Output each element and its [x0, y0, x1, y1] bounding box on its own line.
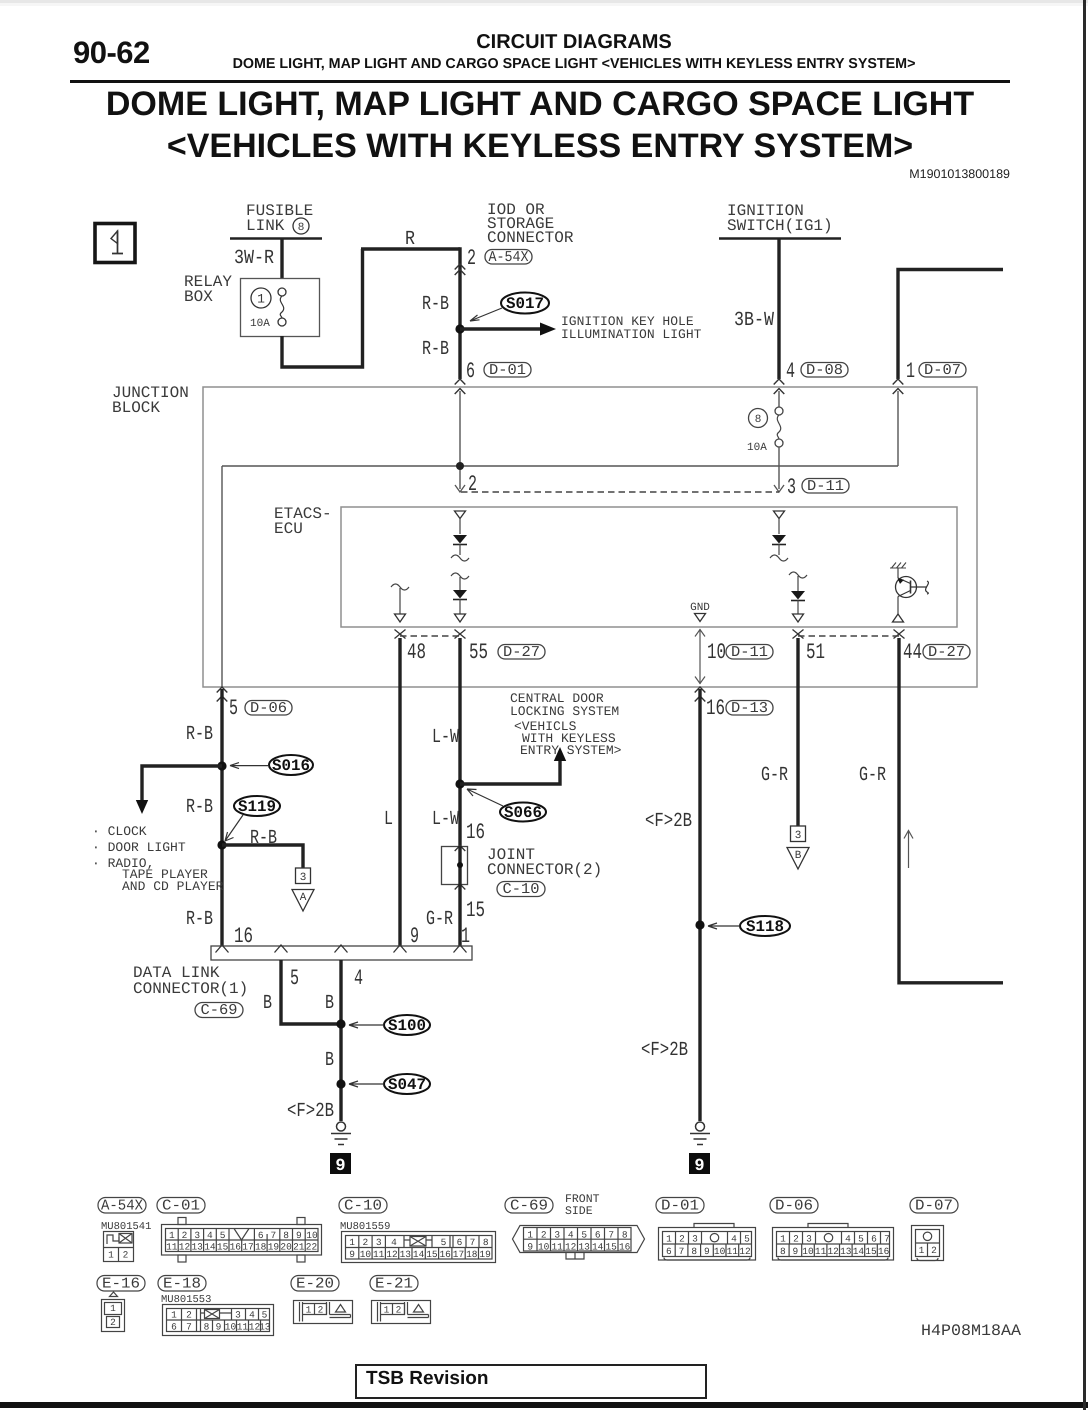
arrowhead pin 3 — [774, 485, 784, 492]
svg-text:SWITCH(IG1): SWITCH(IG1) — [727, 217, 833, 235]
svg-text:2: 2 — [182, 1230, 188, 1241]
arrowhead pin 2 — [455, 485, 465, 492]
svg-text:C-10: C-10 — [344, 1198, 382, 1215]
pin 55 output triangle — [455, 614, 466, 622]
wire branch to clock etc — [142, 764, 222, 801]
header rule — [70, 80, 1010, 83]
wire relay box to IOD riser — [280, 249, 460, 369]
svg-text:8: 8 — [298, 222, 305, 234]
svg-text:10A: 10A — [250, 318, 270, 330]
diode D2 — [453, 590, 467, 600]
svg-text:9: 9 — [349, 1249, 355, 1260]
wire — [459, 519, 461, 535]
svg-text:2: 2 — [931, 1245, 937, 1256]
connector C-69 tag — [195, 1002, 243, 1019]
circled 8 — [749, 409, 768, 428]
ignition key hole label — [561, 314, 702, 342]
svg-text:2: 2 — [318, 1305, 324, 1316]
svg-text:S119: S119 — [238, 798, 276, 816]
svg-text:R-B: R-B — [186, 723, 213, 746]
connector D-06 tag — [245, 700, 292, 717]
svg-text:1: 1 — [780, 1234, 786, 1245]
doc code — [909, 167, 1010, 181]
svg-text:D-11: D-11 — [731, 644, 768, 661]
fuse in relay box — [278, 288, 286, 326]
svg-text:LOCKING SYSTEM: LOCKING SYSTEM — [510, 704, 619, 719]
connector C-10 tag — [339, 1198, 387, 1215]
svg-text:B: B — [325, 992, 334, 1015]
data link connector box — [211, 945, 472, 960]
svg-text:D-27: D-27 — [928, 644, 965, 661]
connector E-20 tag — [291, 1276, 339, 1293]
svg-text:1: 1 — [666, 1234, 672, 1245]
svg-text:8: 8 — [204, 1322, 210, 1333]
svg-text:10A: 10A — [747, 442, 767, 454]
header center title — [476, 31, 672, 54]
connector D-11 tag — [726, 644, 773, 661]
svg-text:L: L — [384, 808, 393, 831]
svg-text:12: 12 — [179, 1242, 191, 1253]
node S100 — [336, 1019, 345, 1028]
relay box label — [184, 273, 232, 306]
svg-text:4: 4 — [568, 1230, 574, 1241]
svg-text:14: 14 — [592, 1242, 604, 1253]
svg-text:5: 5 — [229, 696, 238, 721]
svg-text:9: 9 — [335, 1157, 345, 1176]
svg-text:6: 6 — [466, 359, 475, 384]
svg-text:3: 3 — [787, 475, 796, 500]
wire pin4 down — [339, 960, 342, 1121]
svg-text:5: 5 — [581, 1230, 587, 1241]
wire ignition switch down — [777, 239, 780, 379]
right page edge — [1083, 0, 1086, 1410]
svg-text:10: 10 — [306, 1230, 318, 1241]
svg-text:13: 13 — [840, 1246, 852, 1257]
svg-text:17: 17 — [242, 1242, 253, 1253]
connector table — [97, 1193, 958, 1336]
svg-text:E-18: E-18 — [163, 1276, 201, 1293]
svg-text:D-13: D-13 — [731, 700, 768, 717]
svg-text:S100: S100 — [388, 1017, 426, 1035]
ignition switch label — [719, 202, 841, 239]
wire R-B main left — [220, 689, 223, 946]
pin 48 break squiggle — [391, 584, 409, 590]
svg-text:LINK: LINK — [246, 217, 285, 235]
svg-text:R-B: R-B — [186, 796, 213, 819]
svg-text:L-W: L-W — [432, 808, 459, 831]
svg-text:15: 15 — [865, 1246, 877, 1257]
svg-text:44: 44 — [903, 640, 922, 665]
svg-text:6: 6 — [258, 1230, 264, 1241]
svg-text:5: 5 — [290, 966, 299, 991]
wire — [459, 577, 461, 590]
svg-text:19: 19 — [479, 1249, 491, 1260]
wire D-01 inside block — [459, 391, 461, 489]
svg-text:3: 3 — [376, 1237, 382, 1248]
svg-text:1: 1 — [257, 292, 265, 307]
svg-text:3: 3 — [300, 872, 307, 884]
node S118 — [695, 920, 704, 929]
pin 48 output triangle — [395, 614, 406, 622]
svg-text:8: 8 — [780, 1246, 786, 1257]
svg-text:2: 2 — [793, 1234, 799, 1245]
svg-text:16: 16 — [230, 1242, 242, 1253]
connector D-06 tag — [770, 1198, 818, 1215]
svg-text:D-06: D-06 — [775, 1198, 813, 1215]
svg-text:2: 2 — [679, 1234, 685, 1245]
svg-text:1: 1 — [906, 359, 915, 384]
svg-text:16: 16 — [878, 1246, 890, 1257]
diode D1 — [453, 535, 467, 545]
svg-text:<F>2B: <F>2B — [645, 810, 692, 833]
svg-text:10: 10 — [707, 640, 726, 665]
connector A-54X drawing — [104, 1232, 134, 1262]
wire GND pin to block edge — [695, 629, 705, 684]
svg-text:1: 1 — [110, 1303, 116, 1314]
svg-text:A-54X: A-54X — [101, 1198, 143, 1215]
wire bus left leg — [221, 466, 223, 687]
connector C-69 tag — [505, 1198, 553, 1215]
connector D-27 tag right — [923, 644, 970, 661]
wire 44 down and right — [897, 638, 1003, 983]
svg-text:9: 9 — [216, 1322, 222, 1333]
svg-text:11: 11 — [815, 1246, 827, 1257]
svg-text:D-07: D-07 — [915, 1198, 953, 1215]
svg-text:D-27: D-27 — [503, 644, 540, 661]
connector A-54X tag — [98, 1198, 146, 1215]
svg-text:C-69: C-69 — [510, 1198, 548, 1215]
svg-text:6: 6 — [457, 1237, 463, 1248]
svg-text:10: 10 — [714, 1246, 726, 1257]
svg-text:5: 5 — [441, 1237, 447, 1248]
svg-text:A: A — [300, 892, 307, 904]
bottom bar — [0, 1402, 1088, 1408]
wire fuse to D-11 — [778, 447, 780, 489]
svg-text:16: 16 — [439, 1249, 451, 1260]
svg-text:14: 14 — [413, 1249, 425, 1260]
ETACS-ECU box — [341, 507, 957, 627]
svg-text:5: 5 — [220, 1230, 226, 1241]
svg-text:15: 15 — [426, 1249, 438, 1260]
svg-text:14: 14 — [853, 1246, 865, 1257]
svg-text:C-69: C-69 — [201, 1002, 238, 1019]
wire D-13 down — [698, 689, 701, 1121]
connector D-07 tag — [910, 1198, 958, 1215]
svg-text:3: 3 — [194, 1230, 200, 1241]
svg-text:1: 1 — [349, 1237, 355, 1248]
ground ref 9 right — [689, 1153, 710, 1176]
main title line 1 — [106, 85, 974, 124]
svg-text:10: 10 — [225, 1322, 237, 1333]
svg-text:· DOOR LIGHT: · DOOR LIGHT — [92, 840, 186, 855]
pin crossing X 44 — [894, 630, 905, 639]
svg-text:ECU: ECU — [274, 520, 303, 538]
svg-text:· CLOCK: · CLOCK — [92, 824, 147, 839]
wire D-07 feed — [896, 268, 1003, 379]
chevrons D-06 exit — [217, 687, 228, 702]
svg-text:SIDE: SIDE — [565, 1205, 593, 1218]
dashed connector line D-11 — [461, 491, 779, 493]
connector C-10 drawing — [342, 1232, 496, 1263]
wire IG inside block — [778, 391, 780, 407]
svg-text:9: 9 — [410, 924, 419, 949]
transistor Q1 — [890, 563, 928, 615]
pin 2 input triangle — [455, 511, 466, 519]
svg-text:4: 4 — [731, 1234, 737, 1245]
option triangle A — [292, 890, 314, 912]
connector E-21 tag — [370, 1276, 418, 1293]
svg-text:GND: GND — [690, 602, 710, 614]
wire IOD riser down — [458, 247, 461, 379]
svg-text:1: 1 — [527, 1230, 533, 1241]
wire — [778, 519, 780, 535]
top scan band — [0, 0, 1088, 3]
svg-text:S047: S047 — [388, 1076, 426, 1094]
svg-text:51: 51 — [806, 640, 825, 665]
svg-text:1: 1 — [384, 1305, 390, 1316]
relay box — [241, 279, 320, 337]
joint connector C-10 — [442, 846, 468, 890]
connector D-11 tag — [802, 478, 849, 495]
wire 51 down — [796, 638, 799, 826]
wire pin5 to S100 — [279, 960, 341, 1024]
svg-text:R-B: R-B — [422, 338, 449, 361]
joint connector label — [487, 846, 602, 879]
pin crossing X 55 — [455, 630, 466, 639]
svg-text:ENTRY SYSTEM>: ENTRY SYSTEM> — [520, 743, 622, 758]
connector E-20 drawing — [294, 1301, 353, 1324]
svg-text:11: 11 — [551, 1242, 563, 1253]
splice S119 — [225, 796, 280, 841]
svg-text:48: 48 — [407, 640, 426, 665]
option box 3 — [296, 868, 311, 884]
svg-text:16: 16 — [706, 696, 725, 721]
svg-text:16: 16 — [619, 1242, 631, 1253]
fusible link label — [230, 202, 322, 239]
page number — [73, 35, 150, 71]
connector C-10 tag — [497, 881, 545, 898]
svg-text:12: 12 — [739, 1246, 751, 1257]
ground left — [331, 1122, 351, 1145]
svg-text:C-01: C-01 — [162, 1198, 200, 1215]
svg-text:5: 5 — [262, 1310, 268, 1321]
svg-text:<F>2B: <F>2B — [287, 1100, 334, 1123]
connector C-69 drawing — [513, 1226, 645, 1260]
svg-text:3B-W: 3B-W — [734, 309, 774, 332]
front side label — [565, 1193, 600, 1218]
svg-text:4: 4 — [391, 1237, 397, 1248]
svg-text:S066: S066 — [504, 804, 542, 822]
svg-text:S118: S118 — [746, 918, 784, 936]
diode D3 — [772, 535, 786, 545]
splice S118 — [708, 916, 790, 936]
svg-text:E-21: E-21 — [375, 1276, 413, 1293]
break squiggle — [451, 573, 469, 579]
svg-text:CONNECTOR: CONNECTOR — [487, 229, 574, 247]
splice S066 — [467, 789, 546, 822]
svg-text:7: 7 — [186, 1322, 192, 1333]
svg-text:7: 7 — [470, 1237, 476, 1248]
svg-text:B: B — [263, 992, 272, 1015]
svg-text:R-B: R-B — [186, 908, 213, 931]
svg-text:AND CD PLAYER: AND CD PLAYER — [122, 879, 224, 894]
connector D-01 drawing — [659, 1224, 756, 1261]
svg-text:12: 12 — [386, 1249, 398, 1260]
svg-text:H4P08M18AA: H4P08M18AA — [921, 1322, 1021, 1340]
svg-text:22: 22 — [306, 1242, 318, 1253]
svg-text:3: 3 — [806, 1234, 812, 1245]
svg-text:2: 2 — [186, 1310, 192, 1321]
svg-text:3: 3 — [795, 830, 802, 842]
svg-text:2: 2 — [123, 1250, 129, 1261]
svg-text:9: 9 — [704, 1246, 710, 1257]
svg-text:8: 8 — [283, 1230, 289, 1241]
svg-text:12: 12 — [565, 1242, 577, 1253]
central door locking label — [510, 691, 622, 758]
connector E-18 tag — [158, 1276, 206, 1293]
break squiggle — [451, 555, 469, 561]
svg-text:E-20: E-20 — [296, 1276, 334, 1293]
svg-text:14: 14 — [204, 1242, 216, 1253]
svg-text:ILLUMINATION LIGHT: ILLUMINATION LIGHT — [561, 327, 702, 342]
connector D-27 tag — [498, 644, 545, 661]
svg-text:L-W: L-W — [432, 726, 459, 749]
svg-text:E-16: E-16 — [102, 1276, 140, 1293]
svg-text:G-R: G-R — [761, 764, 788, 787]
svg-text:9: 9 — [694, 1157, 704, 1176]
svg-text:11: 11 — [373, 1249, 385, 1260]
svg-text:6: 6 — [171, 1322, 177, 1333]
pin 3 input triangle — [774, 511, 785, 519]
svg-text:D-08: D-08 — [806, 362, 843, 379]
svg-text:S017: S017 — [506, 295, 544, 313]
load list — [92, 824, 224, 894]
pin 44 output triangle up — [893, 614, 904, 622]
svg-text:CONNECTOR(1): CONNECTOR(1) — [133, 980, 248, 998]
diode D4 — [791, 591, 805, 601]
ground ref 9 left — [330, 1153, 351, 1176]
svg-text:1: 1 — [919, 1245, 925, 1256]
wire — [459, 599, 461, 614]
svg-text:7: 7 — [608, 1230, 614, 1241]
svg-text:16: 16 — [466, 820, 485, 845]
connector D-06 drawing — [773, 1224, 894, 1261]
svg-text:12: 12 — [827, 1246, 839, 1257]
svg-text:20: 20 — [280, 1242, 292, 1253]
svg-text:15: 15 — [217, 1242, 229, 1253]
svg-text:18: 18 — [466, 1249, 478, 1260]
pin 51 output triangle — [793, 614, 804, 622]
TSB revision box — [355, 1364, 707, 1399]
splice S100 — [349, 1015, 430, 1035]
connector D-07 drawing — [912, 1226, 944, 1261]
wire — [459, 544, 461, 555]
svg-text:13: 13 — [191, 1242, 203, 1253]
connector E-21 drawing — [372, 1301, 431, 1324]
svg-text:4: 4 — [845, 1234, 851, 1245]
connector D-08 tag — [801, 362, 848, 379]
svg-text:16: 16 — [234, 924, 253, 949]
svg-text:10: 10 — [360, 1249, 372, 1260]
svg-text:4: 4 — [249, 1310, 255, 1321]
svg-text:9: 9 — [793, 1246, 799, 1257]
node bus/D-01 — [456, 462, 464, 470]
svg-text:G-R: G-R — [859, 764, 886, 787]
svg-text:C-10: C-10 — [503, 881, 540, 898]
svg-text:19: 19 — [268, 1242, 280, 1253]
option triangle B — [787, 848, 809, 870]
break squiggle pin51 branch — [789, 572, 807, 578]
svg-text:15: 15 — [466, 898, 485, 923]
svg-text:R: R — [405, 228, 415, 251]
svg-text:2: 2 — [396, 1305, 402, 1316]
svg-text:3W-R: 3W-R — [234, 247, 274, 270]
svg-text:21: 21 — [293, 1242, 305, 1253]
double chevron A-54X — [455, 264, 466, 275]
chevrons D-01 into junction block — [455, 379, 466, 394]
connector E-16 drawing — [102, 1292, 125, 1332]
svg-text:2: 2 — [468, 472, 477, 497]
svg-text:<F>2B: <F>2B — [641, 1039, 688, 1062]
svg-text:8: 8 — [622, 1230, 628, 1241]
splice S047 — [349, 1074, 430, 1094]
wire — [399, 588, 401, 614]
svg-text:6: 6 — [666, 1246, 672, 1257]
connector D-07 tag — [919, 362, 966, 379]
svg-text:G-R: G-R — [426, 908, 453, 931]
svg-text:S016: S016 — [272, 757, 310, 775]
svg-text:18: 18 — [255, 1242, 267, 1253]
svg-text:D-06: D-06 — [250, 700, 287, 717]
svg-text:11: 11 — [166, 1242, 178, 1253]
svg-text:1: 1 — [461, 924, 470, 949]
node S016 — [217, 761, 226, 770]
svg-text:7: 7 — [271, 1230, 277, 1241]
svg-text:9: 9 — [296, 1230, 302, 1241]
splice S017 — [470, 293, 549, 322]
node S119 — [217, 840, 226, 849]
arrow to ignition key hole light — [460, 327, 540, 331]
connector E-18 drawing — [163, 1305, 274, 1336]
wire 48 to pin 9 — [398, 638, 401, 946]
svg-text:R-B: R-B — [422, 293, 449, 316]
svg-text:BLOCK: BLOCK — [112, 399, 160, 417]
svg-text:7: 7 — [679, 1246, 685, 1257]
svg-text:3: 3 — [235, 1310, 241, 1321]
GND pin triangle — [695, 614, 706, 622]
svg-text:10: 10 — [802, 1246, 814, 1257]
wire 55 lower — [458, 885, 461, 946]
pin crossing X 51 — [793, 630, 804, 639]
svg-text:D-01: D-01 — [661, 1198, 699, 1215]
svg-text:8: 8 — [755, 414, 762, 426]
svg-text:13: 13 — [259, 1322, 271, 1333]
connector A-54X tag — [485, 249, 532, 266]
wire fusible link to relay box — [280, 239, 283, 278]
main title line 2 — [167, 127, 913, 166]
chevrons D-08 — [774, 379, 785, 394]
flag symbol 1 — [95, 224, 135, 263]
svg-text:CONNECTOR(2): CONNECTOR(2) — [487, 861, 602, 879]
svg-text:55: 55 — [469, 640, 488, 665]
svg-text:4: 4 — [786, 359, 795, 384]
svg-text:3: 3 — [692, 1234, 698, 1245]
circled 1 — [251, 288, 271, 308]
arrow up beside wire 44 — [904, 831, 913, 869]
svg-text:B: B — [325, 1049, 334, 1072]
svg-text:1: 1 — [108, 1250, 114, 1261]
svg-text:13: 13 — [400, 1249, 412, 1260]
